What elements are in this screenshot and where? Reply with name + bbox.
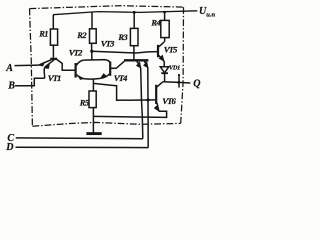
svg-text:Q: Q xyxy=(193,78,200,89)
transistor VT1 (base bar horizontal, emitters to A and B) xyxy=(39,59,75,78)
VT1 emitter arrow (A) xyxy=(39,62,46,67)
svg-text:R1: R1 xyxy=(38,29,48,39)
ground (common) bar xyxy=(86,132,101,135)
VT3 emitter arrow (to C) xyxy=(136,62,141,69)
transistor VT6 xyxy=(156,82,163,112)
svg-text:VT6: VT6 xyxy=(162,96,176,106)
emitter bus of VT2/VT4 xyxy=(84,77,100,80)
svg-text:VT3: VT3 xyxy=(101,39,115,49)
node wire: R2/R3 collector node to VT5 base (line A) xyxy=(92,51,158,53)
svg-text:VT5: VT5 xyxy=(164,44,178,54)
junction dot: rail/R4 xyxy=(163,11,166,14)
VT3 emitter arrow (to D) xyxy=(143,62,148,69)
svg-text:Uи.п: Uи.п xyxy=(199,6,215,18)
svg-text:VT4: VT4 xyxy=(114,73,128,83)
VT6 emitter to ground wire xyxy=(93,111,166,117)
svg-text:B: B xyxy=(7,80,15,91)
input wire C xyxy=(16,137,143,140)
svg-text:R2: R2 xyxy=(76,30,87,40)
transistor VT5 xyxy=(158,42,164,67)
resistor R5 xyxy=(89,79,96,133)
IC boundary frame (dash-dot) xyxy=(30,6,184,127)
svg-text:D: D xyxy=(5,142,13,153)
supply rail xyxy=(53,11,197,15)
transistor VT3 (base bar horizontal, emitters to C and D risers) xyxy=(111,60,148,68)
input wire B xyxy=(15,78,45,86)
input wire D xyxy=(16,146,149,148)
junction dot: R2 collector node xyxy=(90,50,93,53)
junction dot: stub top xyxy=(178,74,180,76)
input wire A xyxy=(15,64,39,67)
collector bus riser to R2 node xyxy=(91,51,93,60)
D riser xyxy=(147,68,149,148)
VT6 base wire from R5 node (with jog) xyxy=(93,83,155,100)
collector bus of VT2/VT4 xyxy=(83,60,110,63)
svg-text:VT2: VT2 xyxy=(69,48,83,58)
svg-text:R3: R3 xyxy=(117,32,128,42)
junction dot: rail/R3 xyxy=(133,11,136,14)
resistor R4 xyxy=(161,12,169,42)
junction dot: D riser / VT6 base xyxy=(146,98,149,101)
svg-text:R5: R5 xyxy=(79,97,90,107)
VT4 emitter arrow xyxy=(100,73,107,78)
svg-text:A: A xyxy=(5,63,13,74)
resistor R1 xyxy=(50,15,57,58)
VT5 emitter arrow xyxy=(159,55,165,62)
svg-text:R4: R4 xyxy=(150,18,160,28)
VT2 emitter arrow xyxy=(78,75,84,79)
svg-text:VD1: VD1 xyxy=(169,65,180,72)
C riser xyxy=(141,68,143,138)
VT1 emitter arrow (B) xyxy=(45,63,50,68)
diode VD1 xyxy=(160,67,169,82)
resistor R2 xyxy=(90,12,97,51)
transistor VT2 (vertical bar, faces right) xyxy=(76,60,85,79)
junction dot: output line xyxy=(177,81,180,84)
svg-text:VT1: VT1 xyxy=(48,73,61,83)
transistor VT4 (vertical bar, faces left) xyxy=(100,62,116,79)
resistor R3 xyxy=(130,12,138,59)
stub at output junction xyxy=(178,75,180,88)
VT6 emitter arrow xyxy=(154,105,159,112)
output line to Q xyxy=(163,82,190,83)
